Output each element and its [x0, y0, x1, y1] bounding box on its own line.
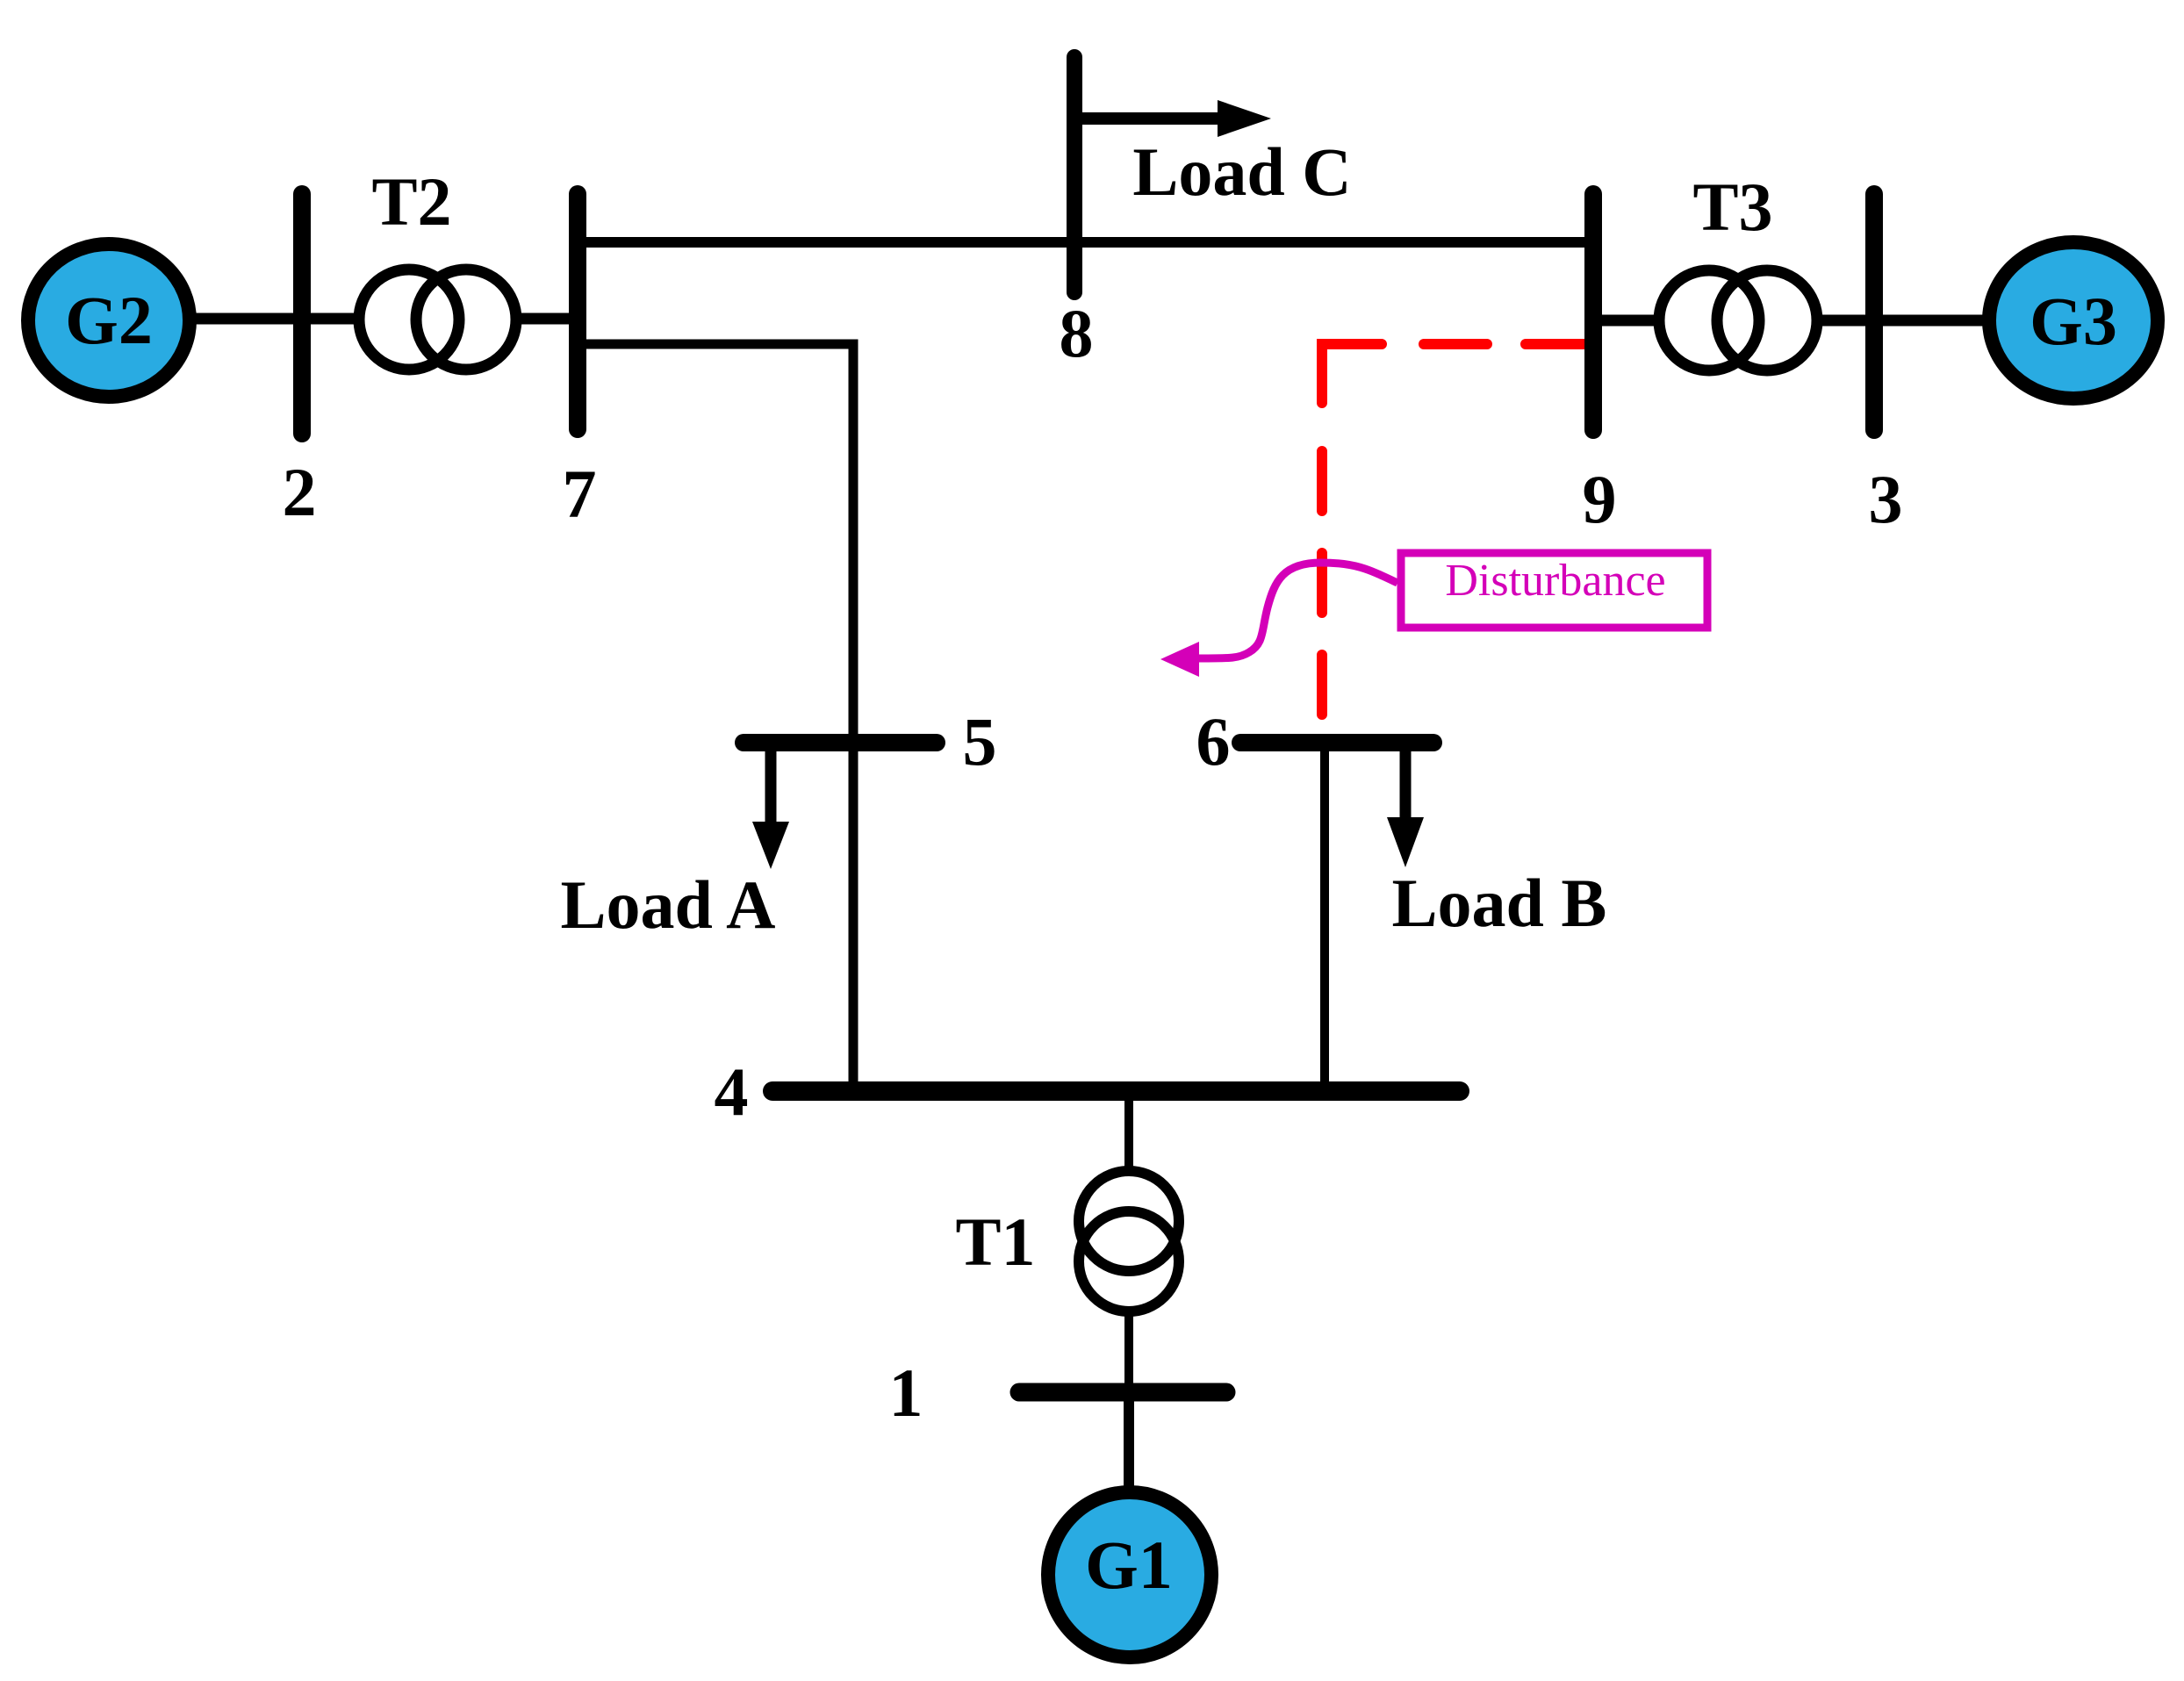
- generator G2: [28, 244, 190, 397]
- wire bus 7 to bus 5/4 (line 7-5): [578, 344, 853, 1091]
- transformer T3: [1659, 270, 1759, 370]
- svg-text:G2: G2: [65, 282, 153, 358]
- svg-text:G3: G3: [2030, 283, 2117, 359]
- svg-text:Disturbance: Disturbance: [1445, 556, 1665, 606]
- Load A arrow: [765, 748, 777, 823]
- faulted line 6-9 (red dashed vertical): [1317, 451, 1327, 734]
- bus 4: [772, 1081, 1460, 1101]
- svg-text:2: 2: [283, 454, 317, 530]
- svg-text:1: 1: [889, 1354, 923, 1431]
- bus 5: [744, 734, 937, 751]
- wire G2 to bus 2 to transformer T2: [188, 313, 356, 325]
- svg-text:T2: T2: [371, 163, 451, 240]
- svg-text:9: 9: [1583, 461, 1617, 537]
- generator G3: [1989, 242, 2158, 399]
- svg-text:4: 4: [715, 1053, 749, 1130]
- svg-text:Load B: Load B: [1392, 865, 1607, 941]
- wire T3 to bus 3: [1821, 315, 1879, 327]
- wire T2 to bus 7: [520, 313, 585, 325]
- bus 3: [1865, 194, 1883, 430]
- bus 9: [1584, 194, 1602, 430]
- bus 8: [1067, 57, 1082, 292]
- svg-text:3: 3: [1869, 461, 1903, 537]
- svg-text:5: 5: [963, 703, 997, 779]
- wire bus 6 to bus 4 (line 4-6): [1320, 743, 1329, 1091]
- faulted line 6-9: corner dash at bend: [1322, 344, 1382, 403]
- transformer T1: [1079, 1171, 1179, 1271]
- bus 2: [293, 194, 311, 434]
- Load B arrow: [1400, 748, 1412, 818]
- Disturbance callout box: [1401, 553, 1707, 628]
- wire bus 4 to T1: [1124, 1091, 1133, 1176]
- wire T1 to bus 1: [1124, 1315, 1133, 1396]
- wire bus 7 to bus 9 (line 7-8-9): [578, 237, 1593, 248]
- svg-text:8: 8: [1060, 295, 1094, 371]
- bus 6: [1240, 734, 1433, 751]
- generator G1: [1048, 1492, 1211, 1657]
- wire bus 3 to G3: [1874, 315, 1998, 327]
- svg-text:7: 7: [563, 456, 597, 532]
- faulted line 6-9 (red dashed horizontal): [1424, 339, 1593, 349]
- wire bus 9 to T3: [1593, 315, 1664, 327]
- svg-text:G1: G1: [1085, 1527, 1173, 1603]
- svg-text:T3: T3: [1692, 169, 1772, 245]
- svg-text:6: 6: [1196, 703, 1231, 779]
- bus 7: [569, 194, 586, 429]
- svg-text:Load A: Load A: [561, 866, 776, 943]
- Disturbance leader arrowhead: [1160, 642, 1199, 677]
- Load C arrow: [1074, 112, 1220, 125]
- svg-text:Load C: Load C: [1132, 133, 1351, 210]
- transformer T2: [359, 269, 459, 370]
- wire bus 1 to G1: [1124, 1392, 1134, 1492]
- bus 1: [1019, 1383, 1226, 1402]
- Disturbance leader curve: [1199, 563, 1397, 658]
- svg-text:T1: T1: [955, 1203, 1035, 1280]
